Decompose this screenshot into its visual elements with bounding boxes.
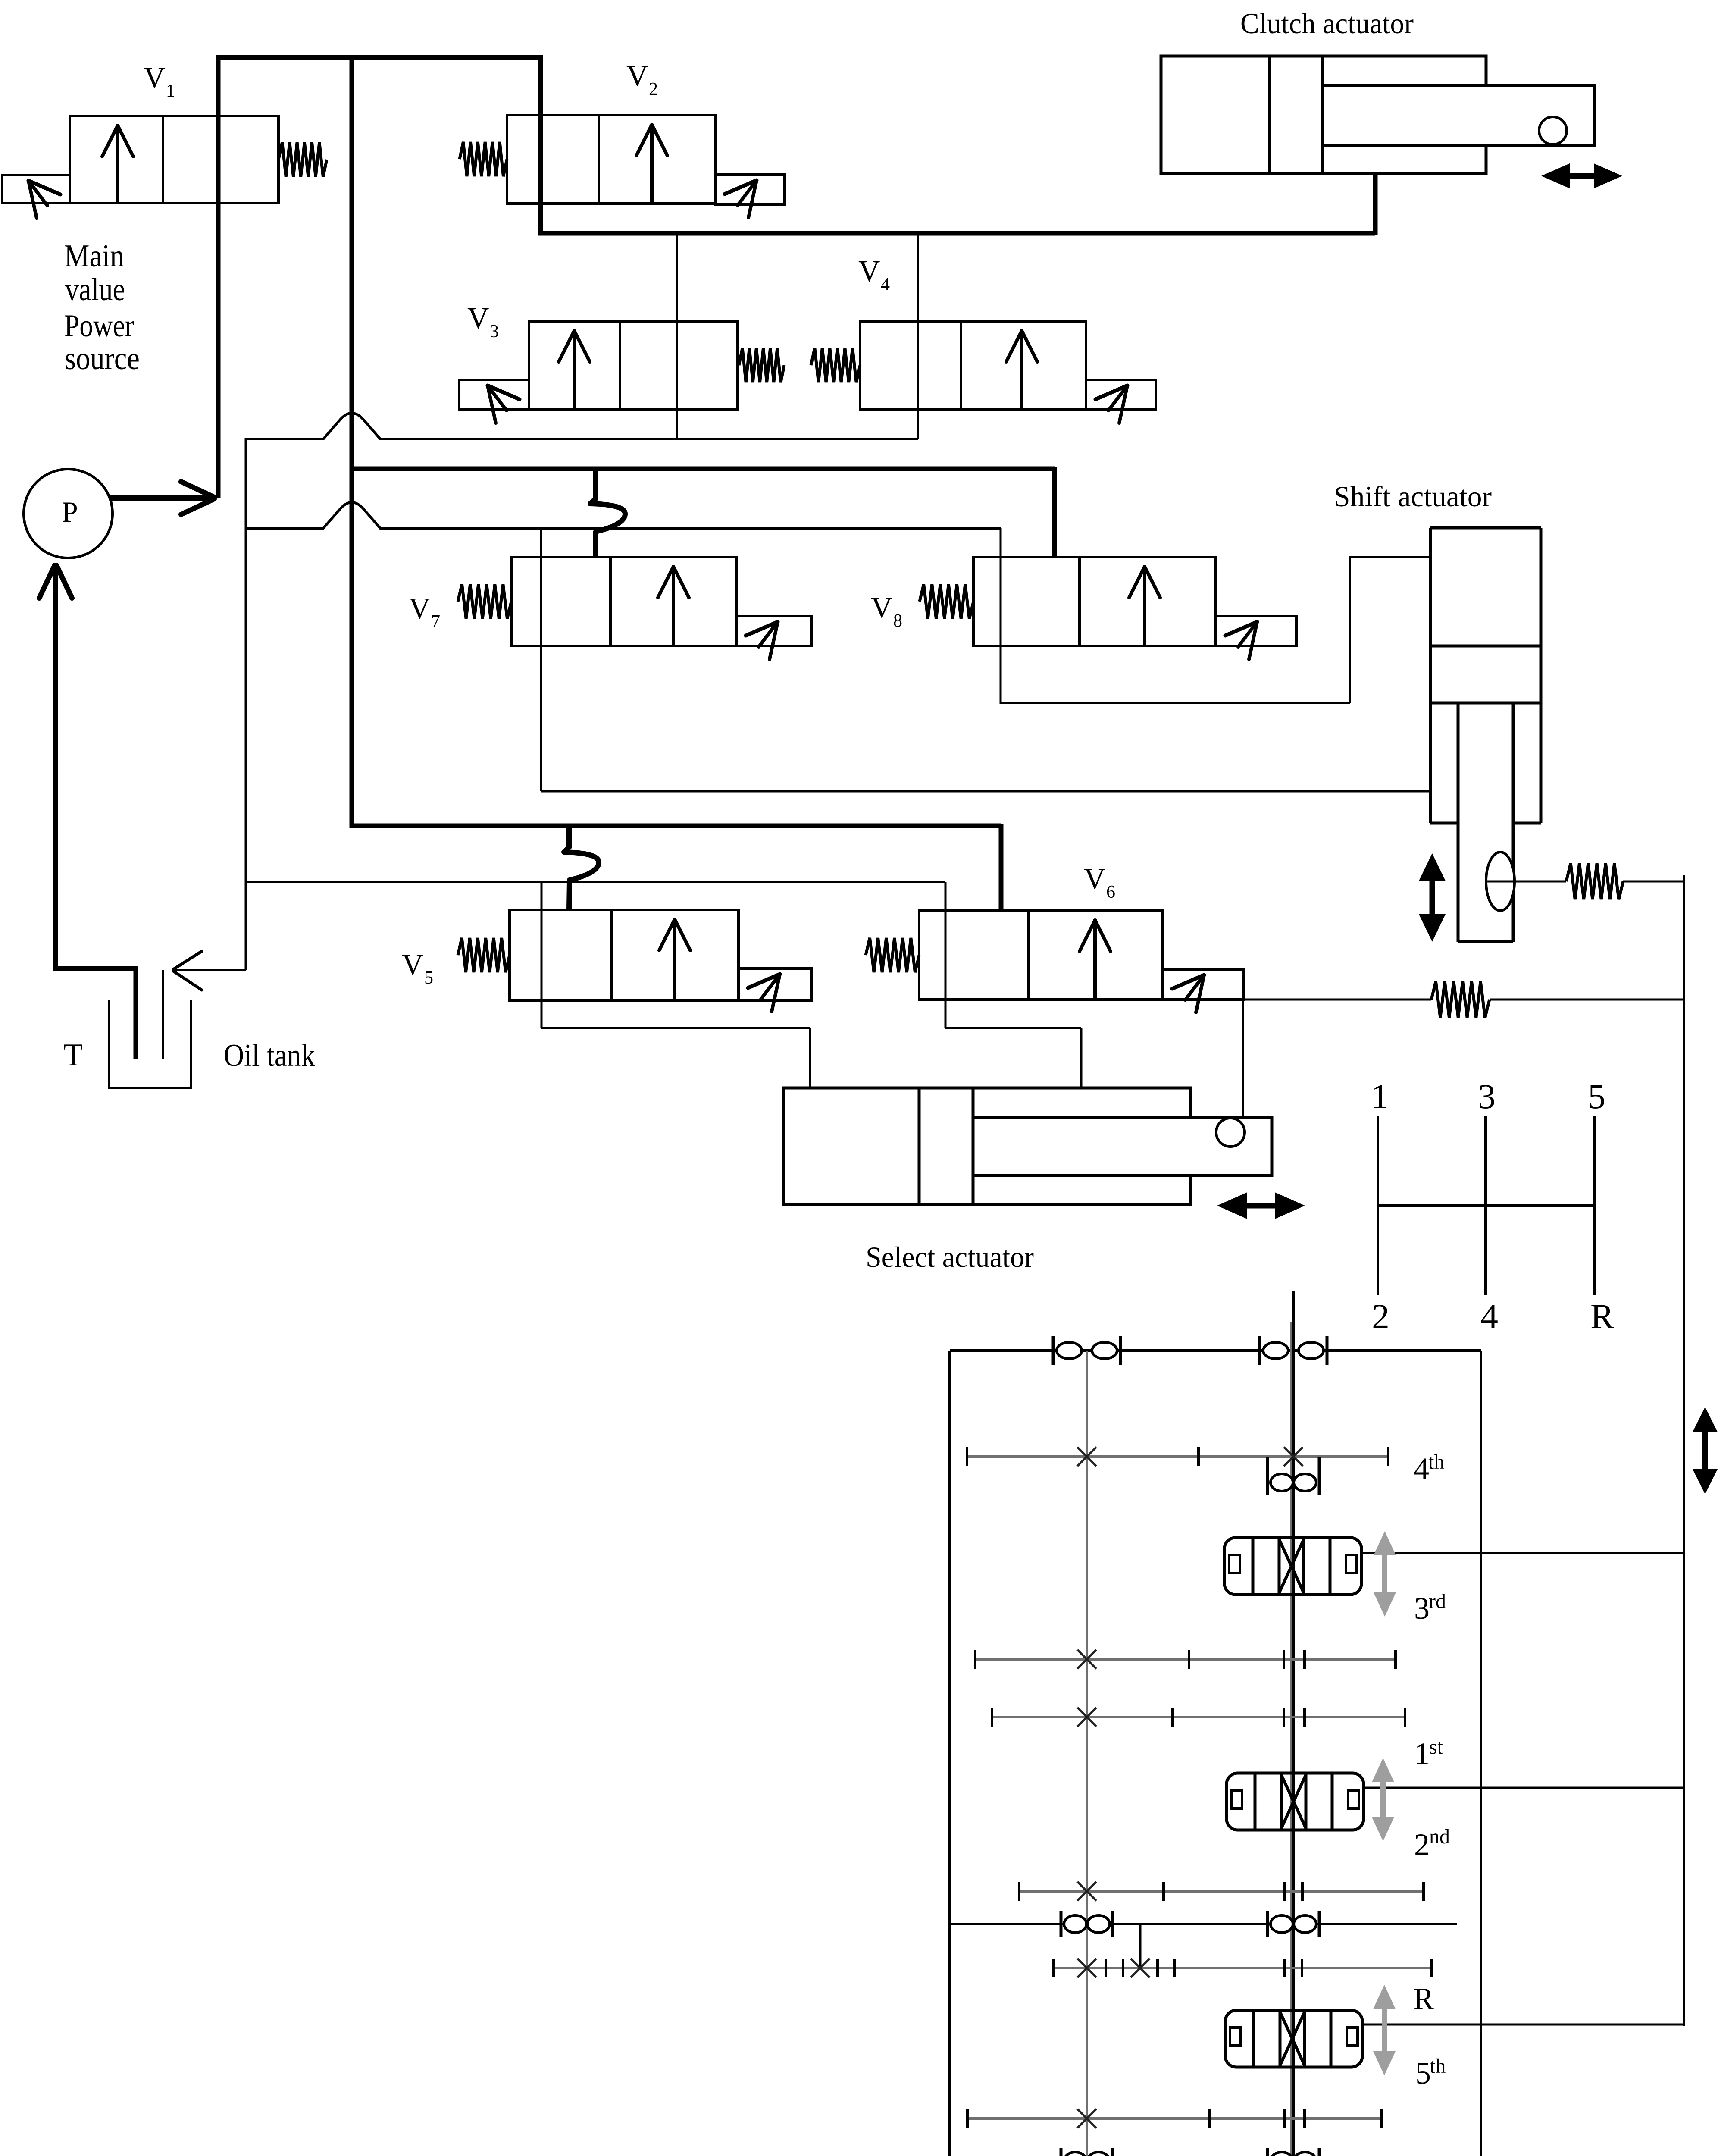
- wire clutch actuator drop: [1373, 174, 1378, 235]
- return arrowhead: [173, 951, 202, 969]
- select rod: [973, 1117, 1272, 1175]
- wire gear linkage vertical rail: [1683, 875, 1685, 2026]
- select piston: [918, 1088, 921, 1205]
- wire return into tank: [172, 969, 246, 971]
- gray double arrow 3rd: [1382, 1552, 1387, 1596]
- valve V6 flow arrow: [1093, 919, 1097, 999]
- svg-text:Select actuator: Select actuator: [866, 1241, 1034, 1273]
- wire V7 through-line: [540, 528, 542, 791]
- valve V1 body: [70, 116, 279, 203]
- valve V4 body: [860, 321, 1086, 410]
- wire select-bank supply header: [350, 824, 1001, 828]
- valve V7 solenoid pilot box: [736, 616, 811, 646]
- clutch actuator cylinder: [1161, 56, 1486, 174]
- valve V2 flow arrow: [650, 124, 654, 203]
- shift feedback spring line: [1486, 881, 1566, 883]
- shift actuator cylinder: [1429, 528, 1432, 823]
- svg-text:4: 4: [1414, 1451, 1429, 1486]
- valve V6 body: [919, 911, 1163, 1000]
- gear row 4th: [967, 1455, 1388, 1458]
- wire V8 through-line: [1000, 528, 1002, 704]
- svg-text:2: 2: [1372, 1297, 1389, 1336]
- synchronizer 3rd/4th: [1224, 1538, 1361, 1595]
- svg-text:th: th: [1428, 1451, 1444, 1473]
- shift motion double arrow: [1430, 877, 1435, 918]
- svg-text:2: 2: [1414, 1827, 1430, 1862]
- gear row 3rd: [975, 1658, 1396, 1661]
- wire main supply top header: [216, 55, 543, 60]
- svg-text:V: V: [1084, 862, 1106, 896]
- valve V3 solenoid pilot box: [459, 380, 529, 410]
- gear mesh pair bottom left: [1060, 2148, 1063, 2156]
- svg-text:7: 7: [431, 612, 440, 632]
- select motion double arrow: [1244, 1203, 1278, 1209]
- wire tank return manifold vertical: [245, 438, 247, 970]
- clutch motion double arrow: [1566, 173, 1597, 179]
- shift rod: [1457, 703, 1460, 942]
- gear row 2nd: [1019, 1890, 1424, 1893]
- svg-text:2: 2: [649, 79, 658, 99]
- gear row 1st: [992, 1716, 1405, 1718]
- wire V5 through-line: [541, 882, 543, 1028]
- wire V8 to shift actuator upper port: [1001, 702, 1350, 704]
- svg-text:V: V: [144, 61, 166, 94]
- synchronizer 5th/R: [1225, 2010, 1362, 2067]
- select rod end circle: [1216, 1118, 1245, 1147]
- gray double arrow 2nd: [1380, 1779, 1386, 1821]
- valve V4 solenoid pilot box: [1086, 380, 1156, 410]
- valve V6 return spring: [866, 938, 919, 972]
- svg-text:3: 3: [1478, 1077, 1496, 1116]
- wire V5 supply drop with break jog: [564, 824, 599, 910]
- wire V7 supply drop with break jog: [590, 467, 625, 557]
- valve V3 return spring: [739, 348, 784, 382]
- svg-text:st: st: [1429, 1736, 1443, 1758]
- svg-text:rd: rd: [1429, 1590, 1446, 1613]
- valve V3 flow arrow: [573, 330, 576, 409]
- gray double arrow R/5th: [1382, 2006, 1387, 2055]
- svg-text:4: 4: [1480, 1297, 1498, 1336]
- valve V8 solenoid pilot box: [1216, 616, 1296, 646]
- valve V7 flow arrow: [672, 566, 675, 645]
- select actuator cylinder: [784, 1088, 1190, 1205]
- wire return branch to V3/V4 with crossover hump: [246, 413, 918, 439]
- valve V5 flow arrow: [673, 918, 676, 1000]
- wire V7 to shift actuator lower port: [541, 790, 1430, 793]
- svg-text:V: V: [467, 302, 489, 335]
- valve V7 return spring: [458, 584, 511, 619]
- clutch piston: [1268, 56, 1271, 174]
- wire return branch to V7 with crossover hump: [246, 502, 1001, 528]
- wire 3rd synchro to rail: [1361, 1552, 1684, 1554]
- svg-text:8: 8: [893, 611, 902, 631]
- clutch rod: [1322, 85, 1595, 145]
- wire V6 to select actuator rod-side port: [945, 1027, 1081, 1029]
- wire V6 spring line to gear linkage: [1244, 999, 1431, 1001]
- svg-text:V: V: [409, 592, 431, 625]
- oil tank T: [108, 1000, 110, 1088]
- valve V2 return spring: [460, 142, 507, 176]
- wire V3 drain through-line: [676, 233, 678, 439]
- gear mesh pair 4th driven: [1266, 1457, 1269, 1495]
- shift cylinder bottom caps: [1430, 822, 1459, 825]
- svg-text:4: 4: [881, 275, 890, 295]
- svg-text:Power: Power: [64, 308, 134, 344]
- wire V6 pilot feedback from select rod: [1242, 969, 1244, 1118]
- svg-text:3: 3: [490, 322, 499, 342]
- svg-text:T: T: [63, 1037, 83, 1073]
- valve V1 solenoid pilot box: [2, 175, 70, 203]
- valve V4 flow arrow: [1020, 330, 1023, 409]
- valve V2 solenoid pilot box: [715, 175, 785, 204]
- gear mesh row mid: [950, 1923, 1457, 1925]
- svg-text:5: 5: [1415, 2056, 1431, 2090]
- suction pipe to tank: [53, 966, 136, 971]
- svg-text:3: 3: [1414, 1591, 1430, 1626]
- pump outlet arrow: [110, 495, 212, 501]
- svg-text:1: 1: [1371, 1077, 1389, 1116]
- gear mesh pair top right: [1258, 1336, 1261, 1365]
- shift rod eye ellipse: [1486, 852, 1515, 911]
- valve V8 return spring: [920, 584, 973, 619]
- pump P circle: [24, 469, 113, 558]
- svg-text:5: 5: [1588, 1077, 1605, 1116]
- shift piston: [1430, 645, 1541, 648]
- svg-text:V: V: [871, 591, 893, 624]
- wire 2nd synchro to rail: [1364, 1787, 1684, 1789]
- svg-text:R: R: [1413, 1981, 1434, 2016]
- reverse idler link: [1139, 1924, 1142, 1968]
- valve V5 return spring: [458, 938, 510, 972]
- tank return pipe: [162, 970, 164, 1059]
- svg-text:nd: nd: [1429, 1825, 1450, 1848]
- valve V6 solenoid pilot box: [1163, 969, 1244, 1000]
- wire clutch supply line: [538, 231, 1375, 236]
- gearbox main shaft (black): [1290, 1322, 1292, 2156]
- valve V1 return spring: [279, 142, 327, 177]
- svg-text:value: value: [65, 272, 125, 307]
- valve V4 return spring: [811, 348, 860, 382]
- gear row 5th: [967, 2117, 1381, 2120]
- wire V8 supply drop: [1052, 467, 1057, 557]
- valve V5 body: [510, 910, 739, 1000]
- svg-text:Main: Main: [64, 238, 124, 274]
- svg-text:Clutch actuator: Clutch actuator: [1240, 7, 1414, 40]
- svg-text:Oil tank: Oil tank: [224, 1038, 315, 1073]
- svg-text:1: 1: [1414, 1736, 1430, 1771]
- gear mesh pair top left: [1052, 1336, 1055, 1365]
- gear row reverse: [1054, 1967, 1431, 1969]
- wire V6 supply drop: [999, 824, 1004, 911]
- gearbox housing: [950, 1349, 1481, 1352]
- valve V8 body: [973, 557, 1216, 646]
- wire V4 through-line to clutch branch: [917, 233, 919, 439]
- pump suction line: [53, 564, 58, 968]
- wire return branch to V5/V6: [246, 881, 945, 883]
- wire R synchro to rail: [1362, 2024, 1684, 2026]
- svg-text:V: V: [402, 948, 424, 981]
- clutch rod end circle: [1539, 117, 1567, 144]
- gearbox input shaft (gray): [1086, 1351, 1088, 2156]
- wire V5 to select actuator left port: [541, 1027, 810, 1029]
- valve V8 flow arrow: [1143, 566, 1146, 645]
- svg-text:R: R: [1590, 1297, 1614, 1336]
- svg-text:1: 1: [166, 81, 175, 101]
- svg-text:5: 5: [424, 968, 433, 988]
- valve V7 body: [511, 557, 736, 646]
- linkage double arrow far right: [1702, 1429, 1708, 1473]
- valve V1 flow arrow: [116, 125, 119, 202]
- wire V2 through-line riser: [538, 55, 543, 235]
- valve V3 body: [529, 321, 737, 410]
- svg-text:Shift actuator: Shift actuator: [1334, 480, 1492, 513]
- valve V5 solenoid pilot box: [739, 968, 812, 1000]
- svg-text:th: th: [1430, 2055, 1446, 2078]
- wire supply riser 1 (to pump): [216, 55, 221, 498]
- svg-text:source: source: [65, 341, 140, 376]
- suction arrowhead: [39, 565, 55, 598]
- wire V6 through-line: [945, 882, 947, 1028]
- spring on select feedback line: [1431, 981, 1490, 1018]
- svg-text:V: V: [626, 60, 648, 93]
- synchronizer 1st/2nd: [1227, 1773, 1364, 1830]
- wire shift-bank supply header: [350, 467, 1055, 471]
- gear mesh pair bottom right: [1266, 2148, 1269, 2156]
- svg-text:V: V: [858, 255, 880, 288]
- svg-text:6: 6: [1106, 882, 1115, 902]
- wire supply riser 2: [350, 55, 354, 828]
- valve V2 body: [507, 115, 715, 204]
- svg-text:P: P: [62, 495, 78, 528]
